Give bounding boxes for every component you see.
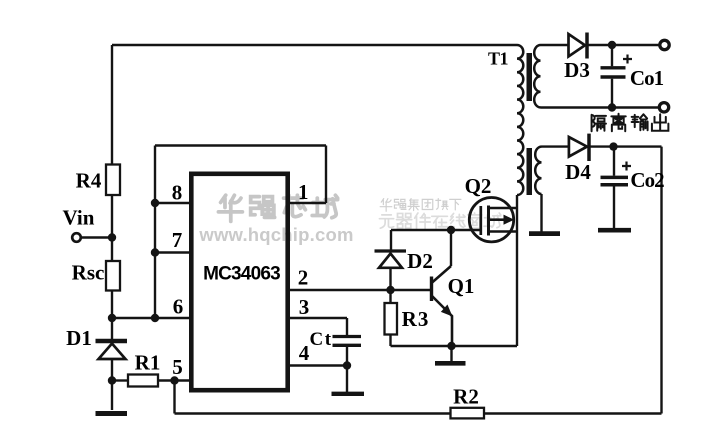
terminal output minus [659, 103, 668, 112]
transistor Q1 emitter diagonal [432, 296, 453, 347]
terminal Vin [72, 233, 81, 242]
node Co1 top [608, 41, 616, 49]
wire pin 2 line to Q1 base [289, 289, 432, 291]
svg-text:R4: R4 [76, 169, 102, 193]
MOSFET Q2 circle [469, 198, 513, 242]
svg-text:www.hqchip.com: www.hqchip.com [198, 224, 353, 245]
diode D4 cathode bar [587, 134, 591, 161]
transistor Q1 collector diagonal [432, 266, 452, 283]
wire loop down to pin 1 [325, 146, 327, 204]
MOSFET Q2 body stub [489, 218, 505, 221]
svg-text:D1: D1 [66, 326, 92, 350]
ground Co2 [598, 228, 631, 233]
svg-text:Q2: Q2 [465, 174, 492, 198]
transformer T1 lower secondary coil [535, 147, 541, 194]
svg-text:MC34063: MC34063 [203, 264, 280, 285]
diode D4 triangle [569, 137, 587, 157]
wire Q1 collector to gate node [450, 230, 452, 266]
wire pin 3 line to Ct top [289, 318, 347, 336]
ground Ct [332, 392, 365, 396]
svg-text:D3: D3 [564, 58, 590, 82]
wire Rsc to D1 [111, 291, 113, 340]
wire pin6 line to left rail [112, 317, 191, 319]
wire pin 4 line [289, 364, 347, 366]
node emitter ground [447, 342, 455, 350]
svg-text:4: 4 [299, 341, 310, 365]
node bus pin6 [151, 314, 159, 322]
MOSFET Q2 source stub [489, 230, 518, 233]
resistor R1 [128, 375, 158, 387]
svg-text:5: 5 [172, 355, 183, 379]
transformer T1 primary coil [517, 45, 523, 195]
svg-text:Vin: Vin [63, 206, 95, 230]
wire bus top loop [155, 144, 326, 146]
wire right rail down to R2 [660, 147, 662, 414]
node pin2 D2 R3 [386, 286, 394, 294]
svg-text:R3: R3 [402, 307, 430, 331]
diode D1 cathode bar [96, 339, 128, 343]
node D1 R1 junction [108, 376, 116, 384]
transistor Q1 base bar [430, 277, 433, 302]
svg-text:Co1: Co1 [630, 66, 664, 90]
capacitor Co1 polarity plus [623, 55, 632, 64]
resistor Rsc [106, 261, 120, 291]
svg-text:Q1: Q1 [448, 274, 475, 298]
diode D2 cathode bar [375, 249, 407, 252]
svg-text:R1: R1 [135, 351, 161, 375]
watermark 华强集团旗下 [380, 199, 461, 212]
wire left rail top to R4 [111, 45, 113, 165]
ground Q1 emitter [435, 361, 466, 366]
watermark 元器件在线商城 [379, 213, 500, 229]
transformer T1 core lower [527, 148, 533, 195]
ground lower secondary [529, 231, 560, 236]
resistor R3 [385, 303, 398, 335]
terminal output plus [660, 40, 669, 49]
transistor Q1 emitter arrow [442, 305, 452, 315]
node Co1 bottom [608, 103, 616, 111]
node Co2 top [609, 142, 617, 150]
wire Co2 bottom stem [613, 187, 615, 229]
capacitor Co2 plates [601, 177, 629, 184]
wire D3 cathode to output terminal [589, 44, 661, 46]
diode D1 triangle [99, 344, 126, 360]
wire pin 1 lead [290, 202, 326, 204]
svg-text:D2: D2 [407, 249, 433, 273]
wire T1 upper secondary top lead [541, 44, 569, 46]
diode D3 triangle [569, 34, 586, 57]
node Vin junction [108, 233, 116, 241]
wire pin 8 lead [155, 202, 191, 204]
capacitor Ct plates [333, 337, 362, 346]
capacitor Co1 plates [601, 68, 626, 77]
node bus pin7 [151, 248, 159, 256]
wire Vin terminal lead [81, 236, 112, 238]
wire lower secondary ground stem [540, 194, 542, 232]
svg-text:2: 2 [298, 266, 309, 290]
MOSFET Q2 body arrow [504, 215, 513, 224]
node pin4 Ct [343, 361, 351, 369]
MOSFET Q2 gate bar [479, 206, 482, 235]
diode D2 triangle [379, 254, 402, 268]
wire T1 lower secondary top lead [542, 145, 569, 147]
watermark 华强芯城 [218, 195, 337, 221]
wire D1 to R1 node [111, 359, 113, 410]
svg-text:T1: T1 [488, 48, 509, 68]
diode D3 cathode bar [585, 33, 589, 59]
wire D4 cathode to right rail [591, 145, 662, 147]
wire Co2 top stem [613, 147, 615, 176]
svg-text:3: 3 [299, 295, 310, 319]
node pin5 feedback [170, 376, 178, 384]
wire R4 to Rsc through Vin node [111, 195, 113, 261]
wire D2 top lead and gate line to Q2 [391, 230, 481, 250]
label 隔离输出 isolated output [592, 114, 669, 131]
capacitor Co2 polarity plus [622, 162, 631, 171]
svg-text:Rsc: Rsc [72, 261, 105, 285]
wire Q2 drain-source vertical [516, 195, 518, 346]
IC U1 MC34063 body [191, 174, 287, 390]
resistor R4 [106, 165, 120, 196]
wire pin 7 lead [155, 251, 191, 253]
wire R3 bottom to source ground line [391, 335, 518, 347]
wire Co1 bottom stem [611, 79, 613, 108]
node gate Q1 collector [447, 226, 455, 234]
wire Q1 emitter ground stem [450, 346, 452, 361]
svg-text:6: 6 [173, 295, 184, 319]
svg-text:1: 1 [298, 180, 309, 204]
svg-text:8: 8 [172, 181, 183, 205]
resistor R2 [451, 408, 485, 419]
wire R3 top lead [389, 290, 391, 303]
wire bus pins 8-7-6 [154, 146, 156, 319]
svg-text:7: 7 [172, 228, 183, 252]
wire bottom feedback rail [175, 412, 662, 414]
svg-text:R2: R2 [453, 385, 479, 409]
wire R1 right lead to pin 5 [158, 379, 191, 381]
svg-text:Ct: Ct [309, 329, 332, 350]
svg-text:Co2: Co2 [630, 168, 664, 192]
node bus pin8 [151, 199, 159, 207]
wire pin5 node down to bottom rail [173, 381, 175, 414]
transformer T1 core upper [527, 53, 533, 101]
transformer T1 upper secondary coil [534, 45, 540, 107]
MOSFET Q2 drain stub [489, 207, 518, 210]
wire Co1 top stem [611, 45, 613, 66]
wire R1 left lead [112, 379, 128, 381]
ground left rail [96, 411, 128, 416]
wire D2 bottom lead [389, 268, 391, 290]
MOSFET Q2 channel bar [487, 206, 490, 236]
svg-text:D4: D4 [565, 160, 591, 184]
wire top rail Vin to T1 primary [112, 44, 517, 46]
wire upper secondary bottom return [541, 106, 660, 108]
node pin6 left rail [108, 314, 116, 322]
wire Ct bottom to ground [346, 345, 348, 392]
